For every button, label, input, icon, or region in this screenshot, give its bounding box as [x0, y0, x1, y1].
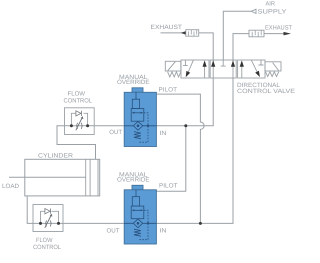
right exhaust flow arrow — [284, 32, 292, 36]
box A blocked port stub — [183, 60, 188, 66]
air supply inlet open arrowhead — [251, 9, 256, 13]
top flow control check valve — [76, 111, 81, 116]
manual override valve top (blue) — [124, 88, 156, 147]
svg-text:OVERRIDE: OVERRIDE — [117, 177, 150, 184]
wire bottom pilot drop — [156, 126, 185, 192]
bottom flow control throttle — [45, 215, 52, 228]
right pilot actuator of directional valve — [265, 62, 281, 71]
right return spring — [266, 72, 279, 77]
svg-text:PILOT: PILOT — [159, 87, 178, 94]
svg-text:CONTROL VALVE: CONTROL VALVE — [237, 88, 295, 95]
wire top pilot line with crossover hop — [156, 94, 204, 223]
box A up arrow — [204, 66, 206, 79]
junction node bottom IN / top pilot — [199, 222, 202, 225]
cylinder piston — [86, 159, 98, 196]
svg-text:AIR: AIR — [266, 1, 276, 8]
svg-text:CONTROL: CONTROL — [33, 244, 62, 251]
wire valve port B down to IN line of top valve — [156, 78, 213, 126]
svg-text:IN: IN — [159, 130, 166, 137]
svg-text:FLOW: FLOW — [36, 237, 53, 244]
box B blocked supply port — [221, 60, 226, 66]
svg-text:OVERRIDE: OVERRIDE — [117, 79, 150, 86]
wire valve port A trunk to bottom IN line — [156, 78, 233, 223]
top flow control throttle — [76, 118, 83, 131]
box C up arrow — [241, 66, 243, 78]
left return spring — [168, 72, 181, 77]
bottom flow control check valve — [45, 209, 50, 214]
junction node bottom flow control right — [57, 222, 60, 225]
top flow control valve — [65, 108, 95, 135]
svg-text:IN: IN — [160, 227, 167, 234]
svg-text:EXHAUST: EXHAUST — [265, 24, 292, 31]
svg-text:PILOT: PILOT — [159, 183, 178, 190]
svg-text:CONTROL: CONTROL — [64, 97, 93, 104]
box B flow line left with up arrow — [212, 60, 214, 78]
junction node top flow control right — [86, 124, 89, 127]
cylinder rod — [9, 176, 86, 178]
box B flow line right with up arrow — [232, 60, 234, 78]
svg-text:EXHAUST: EXHAUST — [151, 24, 183, 31]
svg-text:OUT: OUT — [109, 129, 122, 136]
svg-text:SUPPLY: SUPPLY — [258, 9, 287, 16]
directional control valve body box middle — [210, 60, 236, 78]
box C diagonal flow path — [251, 60, 257, 71]
junction node top flow control left — [70, 124, 73, 127]
wire right exhaust — [233, 34, 284, 60]
directional control valve body box right — [238, 60, 265, 78]
left pilot actuator of directional valve — [165, 61, 181, 71]
left exhaust flow arrow — [181, 31, 186, 34]
svg-text:OUT: OUT — [107, 228, 120, 235]
muffler right — [249, 30, 264, 37]
box C blocked port stub — [259, 60, 264, 65]
wire top OUT through flow control to cylinder rod port — [57, 126, 124, 160]
junction node top IN / bottom pilot — [184, 124, 187, 127]
muffler left — [186, 30, 199, 37]
wire air supply line — [223, 11, 251, 60]
wire left exhaust — [161, 33, 214, 60]
wire bottom OUT through flow control to cylinder cap port — [27, 196, 124, 224]
directional control valve body box left — [181, 60, 209, 78]
manual override valve bottom (blue) — [124, 185, 156, 244]
bottom flow control valve — [33, 205, 63, 232]
svg-text:CYLINDER: CYLINDER — [38, 152, 74, 159]
box A diagonal flow path — [188, 60, 193, 72]
cylinder body — [25, 159, 100, 196]
junction node bottom flow control left — [39, 222, 42, 225]
svg-text:LOAD: LOAD — [2, 183, 20, 190]
